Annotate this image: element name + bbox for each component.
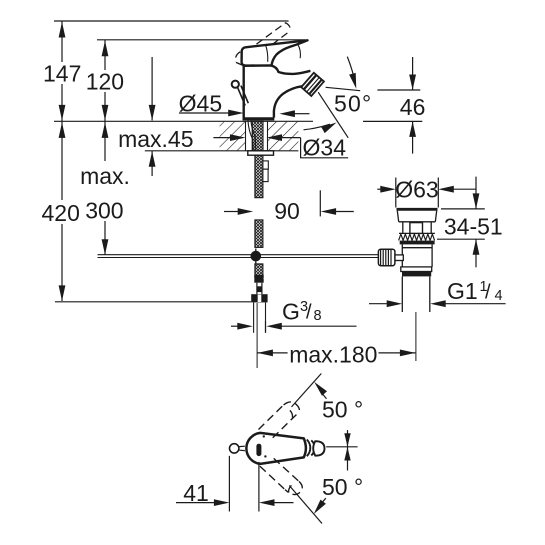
- svg-text:G1: G1: [447, 278, 478, 304]
- text mask 120: [84, 70, 126, 92]
- label 41: [183, 480, 209, 506]
- handle axis line: [326, 446, 357, 448]
- locknut washer: [248, 151, 274, 155]
- handle inner mark: [256, 444, 261, 456]
- mounting hole right edge: [267, 121, 269, 151]
- dimension max300 arrows: [102, 122, 109, 254]
- dimension 90 right arrow: [321, 208, 354, 215]
- label max.45: [118, 126, 193, 152]
- label O45: [179, 91, 222, 117]
- svg-text:120: 120: [86, 69, 124, 95]
- serrated seal ring: [399, 234, 435, 240]
- waste flange: [401, 267, 432, 272]
- svg-text:/: /: [306, 302, 312, 324]
- shank side fitting lower: [263, 169, 268, 181]
- hose segment 2: [255, 220, 263, 248]
- svg-text:max.180: max.180: [289, 341, 377, 367]
- screw circle: [230, 444, 239, 453]
- dimension line 120/max300 vertical: [104, 40, 106, 255]
- rod ball joint: [251, 249, 262, 265]
- mousseur nozzle: [301, 73, 324, 96]
- reference line top of lever (120): [97, 39, 305, 41]
- dashed handle lowered: [260, 458, 302, 494]
- 50deg arc: [347, 57, 356, 89]
- text mask 147: [42, 62, 83, 84]
- dashed raised lever: [235, 23, 290, 65]
- svg-text:50°: 50°: [334, 90, 372, 116]
- label G1 1/4: [447, 278, 503, 304]
- label 90: [274, 198, 300, 224]
- svg-text:34-51: 34-51: [444, 213, 503, 239]
- svg-text:Ø45: Ø45: [179, 91, 222, 117]
- label max.180: [289, 341, 377, 367]
- dimension 34-51 vertical top: [473, 177, 480, 209]
- label 120: [86, 69, 124, 95]
- 41 extension left: [228, 456, 230, 512]
- threaded shank below deck: [255, 155, 263, 198]
- G3/8 tick right: [265, 321, 267, 333]
- angle vertex vertical: [347, 430, 349, 470]
- waste plug upper sides: [397, 211, 436, 222]
- pop-up rod: [98, 255, 379, 258]
- svg-text:50 °: 50 °: [322, 474, 363, 500]
- dimension line 147/420 vertical: [61, 21, 63, 301]
- top view handle body: [246, 433, 306, 464]
- faucet centerline: [256, 303, 258, 368]
- spout axis leader: [326, 87, 361, 90]
- svg-text:147: 147: [43, 61, 81, 87]
- label O34: [303, 135, 347, 161]
- dimension G1-1/4 arrows: [369, 300, 506, 307]
- swivel arc arrow: [304, 123, 337, 134]
- 41 extension right: [258, 462, 260, 512]
- deck top line left part: [54, 120, 313, 122]
- deck hatching left block: [220, 122, 246, 151]
- hose end line (420 extension): [55, 301, 251, 303]
- svg-text:90: 90: [274, 198, 300, 224]
- label G3/8: [282, 298, 322, 324]
- dimension O63 arrows: [377, 186, 476, 193]
- dimension 420 arrows: [59, 122, 66, 301]
- drain centerline: [415, 312, 417, 361]
- svg-text:41: 41: [183, 480, 209, 506]
- hose curve in hole: [248, 121, 256, 151]
- svg-text:420: 420: [42, 200, 80, 226]
- dashed handle raised: [259, 402, 300, 438]
- svg-text:8: 8: [314, 308, 322, 324]
- waste plug top: [397, 208, 438, 211]
- svg-text:50 °: 50 °: [322, 396, 363, 422]
- deck hatching right block: [268, 122, 299, 151]
- deck bottom line (max.45 extension): [145, 150, 299, 152]
- tailpipe: [402, 276, 430, 312]
- dimension 90 right ext: [319, 190, 321, 216]
- upper 50 diagonal: [292, 374, 322, 407]
- dimension O45 arrows: [179, 110, 310, 118]
- svg-text:max.45: max.45: [118, 126, 193, 152]
- dimension max45 vertical bottom: [149, 151, 156, 176]
- rod boss: [395, 255, 404, 261]
- O34 leader to nozzle: [318, 92, 348, 138]
- faucet body: [244, 65, 311, 117]
- handle cap tip: [313, 441, 324, 456]
- dimension O34 hole arrows: [213, 134, 300, 141]
- supply pipe right edge: [265, 302, 267, 332]
- deck top line right part (46 extension): [363, 120, 422, 122]
- svg-text:G: G: [282, 298, 300, 324]
- label 34-51: [444, 213, 503, 239]
- dimension 34-51 vertical bottom: [473, 239, 480, 267]
- dimension 147 arrows: [59, 22, 66, 120]
- dimension max45 vertical top: [149, 57, 156, 120]
- svg-text:46: 46: [400, 94, 426, 120]
- faucet base bottom: [243, 117, 275, 120]
- pop-up rod knob: [232, 81, 249, 106]
- upper 50 arrow: [314, 382, 327, 399]
- label O63: [395, 177, 438, 203]
- lower 50 arrow: [314, 498, 326, 514]
- hose segment 3: [255, 264, 263, 279]
- reference line top of raised lever (147): [54, 20, 289, 22]
- label 50deg upper: [322, 396, 363, 422]
- label max.: [80, 163, 130, 189]
- dimension 90 left: [224, 208, 253, 215]
- clamp knob knurled: [378, 249, 395, 266]
- threaded shank in hole: [252, 121, 263, 151]
- waste body: [402, 244, 432, 267]
- label 147: [43, 61, 81, 87]
- waste plug stem: [410, 223, 423, 234]
- label 50deg lower: [322, 474, 363, 500]
- label 300: [85, 197, 123, 223]
- fitting neck: [257, 283, 262, 295]
- svg-text:4: 4: [495, 288, 503, 304]
- dimension max180: [257, 350, 415, 357]
- dimension 120 arrows: [102, 41, 109, 121]
- angle vertex arrows: [344, 433, 350, 460]
- waste plug lower sides: [399, 222, 435, 234]
- label 50deg top: [334, 90, 372, 116]
- svg-text:Ø63: Ø63: [395, 177, 438, 203]
- dimension 46 vertical top: [409, 57, 416, 90]
- O63 extension lines: [396, 178, 439, 208]
- svg-text:Ø34: Ø34: [303, 135, 347, 161]
- dimension 41 arrows: [176, 499, 294, 506]
- screw connector: [239, 446, 245, 450]
- svg-text:max.: max.: [80, 163, 130, 189]
- svg-text:300: 300: [85, 197, 123, 223]
- dimension G3/8 arrows: [231, 323, 357, 330]
- waste nut dark: [402, 272, 431, 277]
- seal dark band: [400, 241, 435, 245]
- 46 reference line: [377, 89, 420, 91]
- text mask 420: [41, 200, 81, 224]
- hose end fitting: [254, 275, 263, 283]
- supply pipe left edge: [253, 302, 255, 332]
- shank side fitting upper: [263, 161, 268, 169]
- svg-text:/: /: [485, 282, 491, 304]
- dimension 46 vertical bottom: [409, 121, 416, 153]
- handle dots: [263, 435, 267, 457]
- text mask max. 300: [78, 161, 132, 221]
- label 420: [42, 200, 80, 226]
- 34-51 extension bottom: [437, 238, 485, 240]
- mounting hole left edge: [245, 121, 247, 151]
- lever handle: [242, 40, 308, 65]
- label 46: [400, 94, 426, 120]
- G3/8 union nut: [251, 294, 267, 302]
- O34 label box: [301, 138, 349, 158]
- 34-51 extension top: [441, 208, 485, 210]
- handle cap rings: [307, 440, 315, 457]
- lower 50 diagonal: [289, 486, 322, 524]
